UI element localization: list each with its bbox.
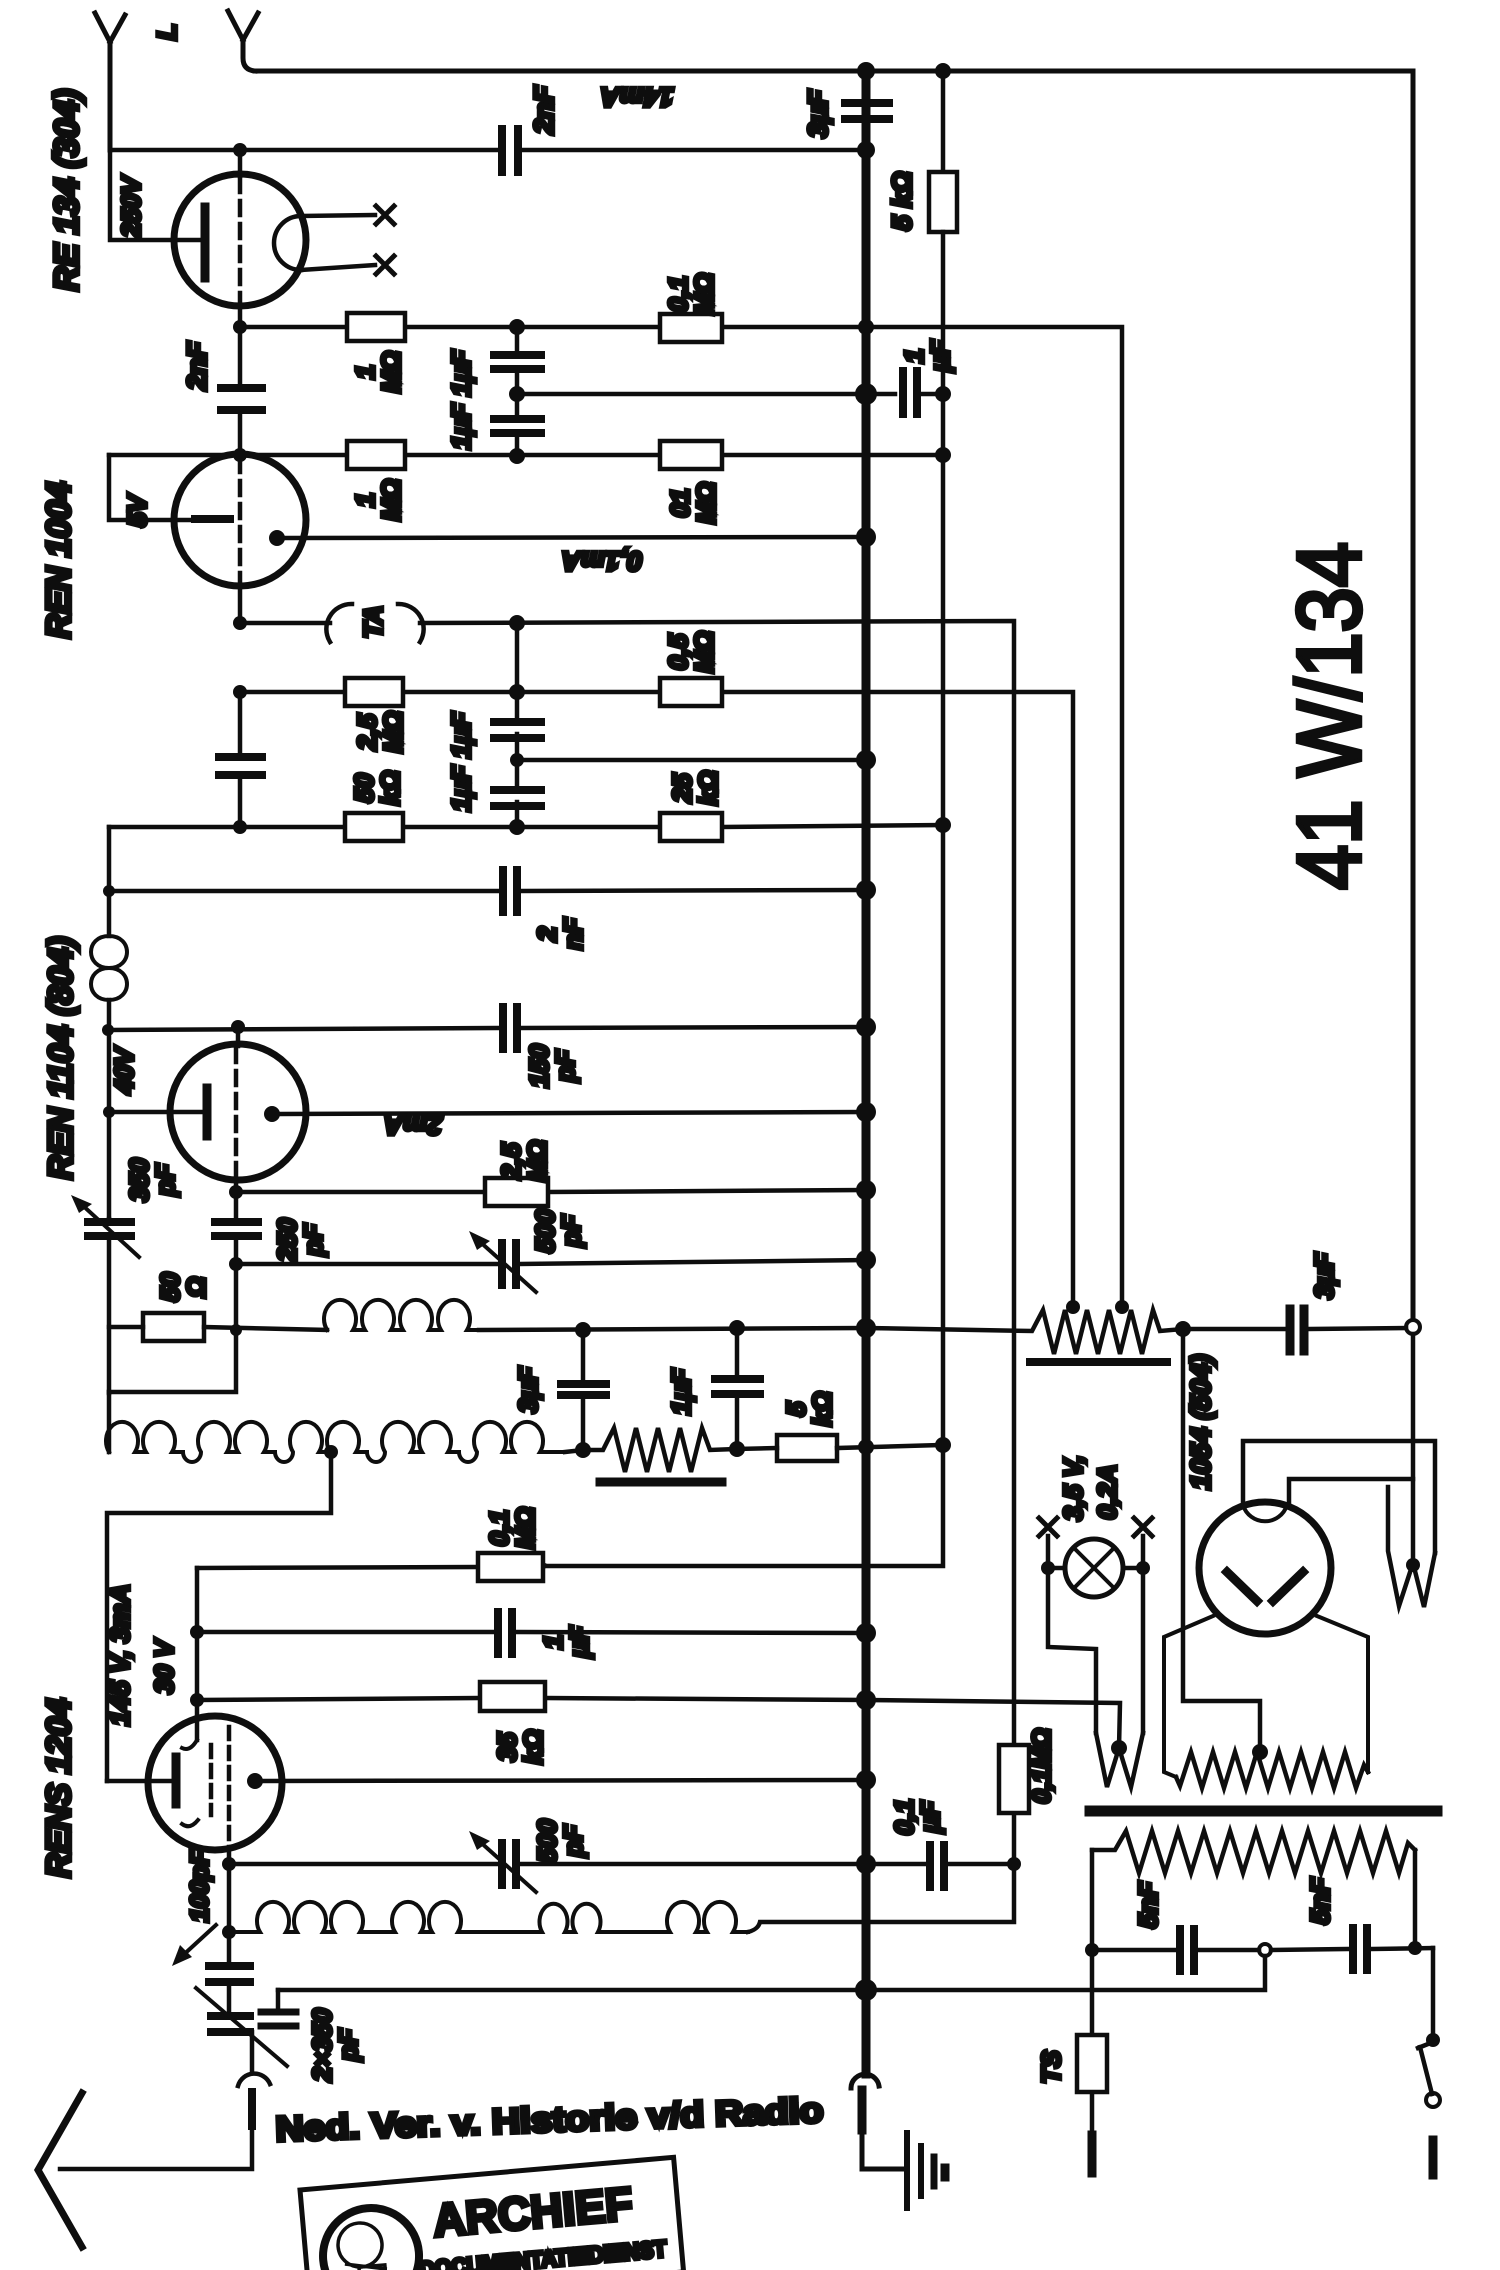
aerial chevron arrow: [38, 2093, 82, 2247]
tube REN1104 cathode dot: [264, 1106, 280, 1122]
svg-text:3μF: 3μF: [803, 89, 833, 138]
capacitor 5nF b: [1353, 1928, 1367, 1970]
arrow 350pF: [80, 1203, 139, 1257]
svg-text:0,1MΩ: 0,1MΩ: [484, 1507, 540, 1549]
aerial lead down: [248, 2092, 256, 2126]
svg-text:25kΩ: 25kΩ: [667, 771, 723, 806]
tube RE134 filament arc: [274, 216, 301, 270]
rectifier filament arc: [1243, 1505, 1287, 1521]
rectifier anode lead left: [1164, 1616, 1213, 1777]
antenna L: [95, 13, 125, 150]
rectifier 1054 envelope: [1199, 1502, 1331, 1634]
coil 2 loops x109: [91, 936, 127, 1000]
svg-text:2nF: 2nF: [532, 917, 588, 950]
svg-text:0,1MΩ: 0,1MΩ: [1028, 1728, 1056, 1803]
capacitor 100pF variable (shunt x229): [227, 1932, 232, 2015]
wire x109 down + grid coil REN1104: [107, 827, 112, 936]
wire x197 down: [195, 1568, 200, 1740]
tube RENS1204 envelope: [148, 1716, 282, 1850]
ground bus (thick vertical x866): [862, 71, 871, 2074]
wire gang2 stub to y1990: [276, 1990, 281, 2012]
mains pin left: [1088, 2135, 1097, 2173]
svg-text:250V: 250V: [116, 174, 146, 238]
dial lamp: [1065, 1539, 1123, 1597]
lamp leads from x marks: [1048, 1536, 1143, 1568]
HV center tap dot: [1252, 1744, 1268, 1760]
heater winding right lead: [1413, 1850, 1418, 1948]
switch lever: [1418, 2042, 1433, 2094]
bus bottom hook: [851, 2074, 879, 2088]
svg-text:2×350pF: 2×350pF: [307, 2008, 363, 2083]
resistor 2,5MOhm a: [345, 678, 403, 706]
resistor 0,1MOhm vertical: [1012, 1813, 1017, 1864]
wire y1781 anode: [263, 1780, 866, 1781]
wire x109 to main coil: [107, 1392, 112, 1452]
svg-text:5 kΩ: 5 kΩ: [887, 172, 917, 231]
tube REN1104 plate lead: [109, 1110, 203, 1115]
tube REN1104 top lead: [236, 1027, 241, 1046]
antenna 2: [228, 11, 258, 71]
svg-text:5nF: 5nF: [1133, 1881, 1163, 1928]
pot tap dots: [1066, 1300, 1080, 1314]
transformer core bar: [1090, 1806, 1437, 1817]
resistor 2,5MOhm b: [485, 1178, 548, 1206]
ground symbol: [907, 2133, 945, 2208]
switch lead: [1431, 1948, 1436, 2040]
mains pin right: [1429, 2140, 1438, 2175]
resistor 1MOhm a: [347, 313, 405, 341]
resistor 5kOhm top (vertical): [929, 172, 957, 232]
svg-text:100pF: 100pF: [186, 1849, 214, 1922]
capacitor 0,1uF (series y1864): [930, 1845, 944, 1887]
arrow 2x350pF: [196, 1988, 287, 2066]
stamp logo circle: [319, 2204, 423, 2270]
capacitor 1uF mid (shunt x737): [735, 1328, 740, 1449]
svg-text:35kΩ: 35kΩ: [492, 1730, 548, 1765]
svg-text:0,2A: 0,2A: [1092, 1465, 1122, 1520]
capacitor 2nF d (series y891): [503, 870, 517, 912]
resistor 0,1MOhm b: [660, 441, 722, 469]
svg-text:5kΩ: 5kΩ: [781, 1392, 837, 1427]
tube RE134 plate bar: [201, 207, 210, 278]
tube RENS1204 cathode lead: [107, 1779, 172, 1784]
lamp right lead down: [1141, 1568, 1146, 1733]
wire y537 anode: [285, 537, 866, 538]
lamp x marks: [1039, 1518, 1057, 1536]
capacitor 1uF a (x517 upper): [515, 327, 520, 456]
capacitor 3uF right (series y1329): [1183, 1328, 1406, 1329]
svg-text:2mA: 2mA: [384, 1110, 444, 1140]
wire y150 left: [110, 148, 496, 153]
lamp left lead down: [1048, 1568, 1096, 1733]
capacitor 2nF b (shunt x240): [238, 327, 243, 455]
zigzag resistor y1450: [583, 1428, 737, 1472]
svg-text:L: L: [152, 24, 182, 41]
coil 4 loops y1330: [324, 1300, 479, 1330]
node open circle right border: [1406, 1320, 1420, 1334]
zigzag underline bar: [600, 1478, 722, 1487]
tube RE134 envelope: [174, 174, 306, 306]
tube RE134 bottom lead: [238, 305, 243, 327]
svg-text:250pF: 250pF: [272, 1218, 328, 1263]
svg-text:5V: 5V: [122, 492, 152, 526]
rectifier anode lead right: [1317, 1616, 1368, 1772]
capacitor 350pF variable (shunt x109): [88, 1222, 131, 1236]
lamp side leads: [1048, 1566, 1143, 1571]
main tuned coil y1452: [106, 1422, 565, 1462]
capacitor 500pF variable b (series y1864): [502, 1843, 516, 1885]
capacitor 2nF c (shunt x240): [238, 692, 243, 827]
svg-text:350pF: 350pF: [124, 1158, 180, 1202]
wire y1932 coil chain from tube: [227, 1864, 232, 1932]
tube REN1004 dashed: [238, 458, 243, 582]
TA pickup arcs: [326, 604, 423, 642]
capacitor 150pF (series y1027): [503, 1007, 517, 1049]
wire x943 top: [941, 71, 946, 172]
node circle mid 5nF: [1259, 1944, 1271, 1956]
arrow 500pF b: [478, 1840, 536, 1892]
svg-text:REN 1104 (804): REN 1104 (804): [42, 936, 80, 1179]
wire coil end to 3uF node: [565, 1450, 583, 1452]
rectifier filament lead 1: [1243, 1441, 1435, 1553]
svg-text:40V: 40V: [109, 1045, 139, 1095]
wire x1183 down to HV tap: [1183, 1329, 1260, 1750]
heater tap W arrows left: [1096, 1733, 1143, 1787]
capacitor 5nF a: [1180, 1929, 1194, 1971]
capacitor 2x350pF gang 1: [211, 2016, 250, 2032]
tube RENS1204 bottom lead: [227, 1848, 232, 1864]
tube RE134 plate lead: [110, 150, 200, 240]
rectifier anode bars: [1227, 1572, 1303, 1601]
wire y1948 with 5nF caps: [1092, 1948, 1433, 1950]
svg-text:0,5MΩ: 0,5MΩ: [663, 631, 719, 673]
dot right W: [1406, 1558, 1420, 1572]
resistor 1MOhm b: [347, 441, 405, 469]
wire y827: [109, 825, 943, 827]
tube REN1104 bottom lead: [234, 1180, 239, 1192]
heater winding zigzag: [1092, 1831, 1415, 1873]
wire y1700 + resistor 35kOhm: [197, 1698, 866, 1700]
svg-text:145 V, 3mA: 145 V, 3mA: [105, 1584, 135, 1726]
wire y1027: [109, 1027, 866, 1030]
wire x1073 x1122 to potentiometer taps: [866, 327, 1122, 1307]
HV secondary winding zigzag: [1176, 1752, 1368, 1788]
svg-text:RE 134 (304): RE 134 (304): [48, 89, 86, 291]
resistor 50 Ohm: [143, 1313, 204, 1341]
wire y1327 left: [109, 1327, 327, 1330]
svg-text:Ned. Ver. v. Historie v/d Radi: Ned. Ver. v. Historie v/d Radio: [275, 2091, 824, 2149]
potentiometer 41W zigzag y1330: [866, 1310, 1183, 1354]
capacitor 1uF right (series): [903, 371, 917, 414]
wire x943 corner to y1566: [545, 1445, 943, 1566]
resistor 5kOhm b: [777, 1435, 837, 1461]
svg-text:2,5MΩ: 2,5MΩ: [352, 711, 408, 753]
svg-text:3,5 V,: 3,5 V,: [1058, 1455, 1088, 1521]
wire y1192: [236, 1190, 866, 1192]
x mark filament 2: [376, 256, 394, 274]
resistor 25kOhm: [660, 813, 722, 841]
wire y1112 anode: [280, 1112, 866, 1114]
tube REN1104 envelope: [170, 1044, 306, 1180]
tube REN1004 grid bar: [195, 515, 230, 523]
wire right border x1413: [1411, 71, 1416, 1319]
wire top rail y72: [255, 69, 1413, 74]
stamp box: [300, 2157, 684, 2270]
wire y623 with TA pickup: [240, 621, 1014, 1745]
svg-text:REN 1004: REN 1004: [40, 481, 78, 638]
arrow 100pF: [180, 1925, 216, 1958]
wire y1264: [236, 1260, 866, 1264]
wire y1448: [737, 1445, 943, 1449]
svg-text:1μF 1μF: 1μF 1μF: [446, 349, 476, 449]
svg-text:0,1mA: 0,1mA: [561, 546, 642, 576]
svg-text:30 V: 30 V: [149, 1638, 179, 1694]
svg-text:0,1MΩ: 0,1MΩ: [663, 273, 719, 315]
svg-text:1μF: 1μF: [899, 339, 955, 373]
svg-text:50Ω: 50Ω: [155, 1272, 211, 1301]
capacitor 3uF top (shunt on bus): [845, 103, 889, 119]
tube RENS1204 cathode bar: [172, 1757, 181, 1804]
svg-text:150pF: 150pF: [524, 1044, 580, 1088]
resistor 0,5MOhm: [660, 678, 722, 706]
heater tap W arrows right: [1388, 1487, 1435, 1607]
tube REN1004 grid lead: [109, 455, 195, 520]
capacitor 1uF c/d (x517 lower): [515, 623, 520, 827]
wire y394 to x943: [923, 392, 943, 397]
svg-text:1054 (504): 1054 (504): [1185, 1354, 1216, 1489]
wire bus to W tap: [866, 1700, 1120, 1748]
svg-text:01MΩ: 01MΩ: [665, 482, 721, 524]
resistor 0,1MOhm a: [660, 314, 722, 342]
capacitor 2x350pF gang 2: [261, 2012, 296, 2026]
svg-text:ARCHIEF: ARCHIEF: [431, 2177, 635, 2246]
svg-text:14mA: 14mA: [600, 82, 674, 112]
coil tap wire: [107, 1452, 331, 1781]
wire y1330 to bus: [479, 1328, 866, 1330]
svg-text:0,1μF: 0,1μF: [889, 1799, 945, 1835]
wire y891: [109, 890, 866, 891]
wire y327: [240, 325, 866, 330]
svg-text:3μF: 3μF: [513, 1366, 543, 1413]
tube REN1004 bottom lead: [238, 586, 243, 623]
svg-text:1μF: 1μF: [666, 1368, 696, 1415]
potentiometer underline: [1030, 1358, 1167, 1366]
tube REN1004 envelope: [174, 454, 306, 586]
capacitor 2nF top (series): [502, 129, 518, 172]
capacitor 500pF variable a (series y1264): [502, 1243, 516, 1285]
wire x236 down to corner: [109, 1264, 236, 1392]
x mark filament 1: [376, 206, 394, 224]
svg-text:5nF: 5nF: [1305, 1877, 1335, 1924]
stamp bulb: [336, 2221, 384, 2269]
capacitor 250pF (shunt x236): [234, 1192, 239, 1264]
capacitor 3uF left (shunt x583): [581, 1330, 586, 1450]
aerial plug arc: [238, 2074, 270, 2086]
resistor 50kOhm: [345, 813, 403, 841]
fuse TS line: [1090, 1950, 1095, 2135]
wire y1864: [229, 1862, 1014, 1867]
svg-text:2,5MΩ: 2,5MΩ: [496, 1140, 552, 1182]
svg-text:500pF: 500pF: [530, 1209, 586, 1253]
tuning coils y1932: [229, 1902, 748, 1932]
tube RENS1204 grid dashed 2: [227, 1727, 232, 1848]
wire y394 mid: [517, 392, 895, 397]
wire y1632 + capacitor 1uF d (series): [197, 1632, 866, 1633]
svg-text:3μF: 3μF: [1309, 1252, 1339, 1299]
wire y692: [240, 692, 1073, 1307]
tube RENS1204 anode dot: [247, 1773, 263, 1789]
tube RENS1204 grid dashed 1: [209, 1745, 214, 1815]
svg-text:41 W/134: 41 W/134: [1280, 542, 1380, 890]
wire y455: [109, 453, 943, 458]
tube RE134 top lead: [238, 150, 243, 176]
svg-text:2nF: 2nF: [182, 340, 212, 391]
heater winding left lead: [1090, 1850, 1095, 1950]
wire y760 mid: [517, 758, 866, 763]
svg-text:RENS 1204: RENS 1204: [40, 1698, 78, 1878]
tube RENS1204 grid curl: [182, 1740, 197, 1749]
wire y150 right: [524, 148, 866, 153]
tube RENS1204 grid curl 2: [182, 1820, 198, 1826]
svg-text:1μF 1μF: 1μF 1μF: [446, 711, 476, 811]
tube RE134 filament leads: [301, 215, 375, 270]
antenna input lead below cap: [250, 2032, 255, 2070]
wire x109 through 350pF: [107, 1219, 112, 1393]
wire y1566 left + resistor 0,1MOhm c: [197, 1566, 545, 1568]
wire x943 down: [941, 232, 946, 1445]
switch contact circle: [1426, 2093, 1440, 2107]
svg-text:1MΩ: 1MΩ: [350, 479, 406, 521]
svg-text:TS: TS: [1036, 2050, 1066, 2084]
arrow 500pF a: [478, 1240, 536, 1292]
junction heater/5nF: [1408, 1941, 1422, 1955]
tube RE134 grid dashed: [238, 178, 243, 302]
svg-text:50kΩ: 50kΩ: [349, 771, 405, 806]
svg-text:2nF: 2nF: [529, 84, 559, 135]
wire coil to x1014: [748, 1864, 1014, 1932]
tube REN1004 cathode dot: [269, 530, 285, 546]
svg-text:1MΩ: 1MΩ: [350, 351, 406, 393]
svg-text:500pF: 500pF: [532, 1819, 588, 1863]
tube REN1104 plate bar: [203, 1088, 212, 1136]
tube REN1104 dashed: [234, 1048, 239, 1176]
fuse TS box: [1077, 2035, 1107, 2092]
wire y1990: [278, 1956, 1265, 1990]
svg-text:TA: TA: [358, 606, 388, 639]
rectifier filament lead 2: [1289, 1479, 1413, 1504]
wire right border lower: [1411, 1334, 1416, 1563]
